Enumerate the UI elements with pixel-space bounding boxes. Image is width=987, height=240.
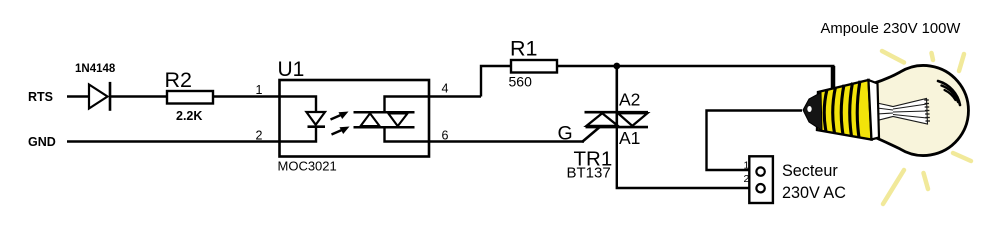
wire GND to U1 pin2: [67, 140, 280, 142]
wire lamp base drop: [831, 66, 836, 88]
svg-text:Secteur: Secteur: [782, 162, 838, 180]
junction node: [613, 63, 620, 70]
wire gate diagonal: [582, 127, 600, 142]
svg-text:2: 2: [744, 173, 750, 185]
glass bulb: [873, 65, 968, 155]
connector J1 Secteur: [744, 156, 847, 203]
light rays: [882, 51, 971, 204]
svg-text:A2: A2: [619, 90, 640, 110]
svg-text:GND: GND: [28, 135, 56, 149]
wire diode to R2: [111, 95, 167, 97]
svg-text:BT137: BT137: [567, 165, 611, 182]
wire U1 triac to pin6: [385, 127, 585, 141]
wire U1 inner pin1 to LED: [280, 97, 316, 113]
svg-text:A1: A1: [619, 128, 640, 148]
svg-text:2: 2: [256, 129, 263, 143]
svg-text:Ampoule 230V 100W: Ampoule 230V 100W: [821, 21, 961, 37]
resistor R1: [509, 37, 558, 90]
glass reflection arcs: [938, 81, 960, 105]
svg-text:MOC3021: MOC3021: [278, 159, 337, 174]
svg-text:4: 4: [442, 82, 449, 96]
lamp LA1 ampoule: [803, 51, 971, 204]
svg-text:R1: R1: [510, 37, 537, 61]
screw base: [803, 80, 879, 140]
photo-triac inside U1: [354, 112, 415, 127]
wire R2 to U1 pin1: [213, 95, 280, 97]
wire pin4 riser to R1: [481, 66, 511, 97]
wire U1 triac to pin4: [385, 97, 482, 113]
wire lamp tip loop to connector pin1: [707, 111, 803, 171]
wire LED cathode to pin2: [280, 127, 316, 142]
wire RTS to diode: [67, 95, 90, 97]
svg-text:230V AC: 230V AC: [782, 184, 846, 202]
svg-text:1: 1: [256, 83, 263, 97]
triac TR1: [567, 66, 649, 182]
svg-text:6: 6: [442, 129, 449, 143]
svg-text:560: 560: [509, 74, 533, 90]
diode D1 1N4148: [75, 63, 116, 111]
contact tip: [803, 93, 822, 131]
resistor R2: [165, 68, 214, 123]
svg-text:2.2K: 2.2K: [176, 109, 202, 123]
wire R1 to junction: [557, 65, 618, 67]
op-amp U1 MOC3021 optocoupler box: [278, 58, 430, 174]
svg-text:1N4148: 1N4148: [75, 63, 116, 75]
svg-text:R2: R2: [165, 68, 192, 92]
LED inside U1: [306, 112, 325, 127]
wire TR1 A1 to connector pin2: [617, 127, 760, 188]
LED light arrows: [331, 112, 350, 135]
svg-text:G: G: [558, 123, 573, 145]
svg-text:U1: U1: [278, 58, 305, 81]
stem and filament: [877, 99, 930, 125]
svg-text:1: 1: [744, 160, 750, 172]
svg-text:RTS: RTS: [28, 90, 53, 104]
wire junction to lamp: [617, 65, 835, 67]
collar: [869, 80, 880, 140]
